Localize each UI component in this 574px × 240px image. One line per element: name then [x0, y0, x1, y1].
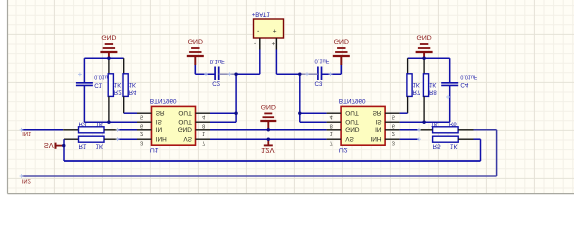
wire U2 to R5 — [400, 138, 419, 140]
svg-text:C3: C3 — [315, 80, 323, 87]
svg-text:R8: R8 — [429, 89, 437, 95]
no-connect crosses — [20, 72, 450, 178]
svg-text:1K: 1K — [96, 120, 104, 127]
svg-text:GND: GND — [261, 103, 276, 110]
svg-text:IN: IN — [156, 126, 163, 133]
svg-text:SV: SV — [44, 141, 54, 150]
svg-text:3: 3 — [140, 140, 143, 146]
svg-text:2: 2 — [392, 130, 395, 136]
svg-text:C2: C2 — [212, 80, 220, 87]
svg-text:IN2: IN2 — [22, 178, 31, 184]
svg-text:INH: INH — [156, 135, 167, 142]
svg-text:IN: IN — [375, 126, 382, 133]
resistor R7 — [407, 58, 421, 113]
svg-text:+: + — [273, 27, 277, 34]
svg-text:GND: GND — [417, 34, 432, 41]
svg-text:R4: R4 — [129, 89, 137, 95]
wire cross bus1 — [64, 139, 481, 161]
wire U1 IS row — [84, 121, 137, 123]
wire R1 to U1 — [118, 138, 137, 140]
wire IN2 bus2 — [22, 130, 497, 176]
svg-text:C4: C4 — [460, 81, 468, 88]
sheet border — [8, 0, 574, 194]
svg-text:1K: 1K — [429, 81, 436, 87]
svg-text:3: 3 — [392, 140, 395, 146]
svg-text:0.1uF: 0.1uF — [315, 57, 330, 63]
svg-text:IN1: IN1 — [22, 130, 31, 136]
svg-text:R6: R6 — [449, 120, 457, 127]
svg-text:BTN7960: BTN7960 — [150, 97, 177, 104]
wire battery minus — [210, 50, 260, 123]
svg-text:1: 1 — [202, 130, 205, 136]
svg-text:VS: VS — [345, 135, 354, 142]
svg-text:R7: R7 — [413, 89, 421, 95]
svg-text:+BAT1: +BAT1 — [252, 10, 271, 16]
power port 12V — [261, 139, 275, 155]
capacitor C2 — [195, 58, 236, 87]
svg-text:+: + — [272, 40, 276, 47]
power port SV — [44, 141, 64, 150]
svg-text:OUT: OUT — [178, 118, 192, 125]
svg-text:1K: 1K — [129, 81, 136, 87]
resistor R2 — [108, 58, 122, 122]
ground GND3 — [333, 38, 350, 75]
svg-text:4: 4 — [202, 114, 205, 120]
svg-text:R1: R1 — [79, 143, 87, 150]
ground GND1 — [100, 34, 117, 59]
wire U1-U2 GND row — [210, 129, 327, 131]
svg-text:0.01uF: 0.01uF — [460, 73, 477, 79]
svg-text:GND: GND — [188, 38, 203, 45]
svg-text:U1: U1 — [150, 146, 159, 153]
svg-text:INH: INH — [370, 135, 381, 142]
svg-text:IS: IS — [375, 118, 381, 125]
resistor R4 — [123, 58, 137, 113]
resistor R8 — [423, 58, 437, 122]
svg-text:1K: 1K — [413, 81, 420, 87]
svg-text:5: 5 — [392, 114, 395, 120]
resistor R1 — [64, 136, 118, 149]
resistor R6 — [419, 120, 474, 132]
svg-text:7: 7 — [202, 140, 205, 146]
wire U2 to R6 — [400, 129, 419, 131]
svg-text:SR: SR — [156, 109, 165, 116]
svg-text:R2: R2 — [114, 89, 122, 95]
svg-text:OUT: OUT — [345, 109, 359, 116]
svg-text:R3: R3 — [79, 120, 87, 127]
svg-text:OUT: OUT — [345, 118, 359, 125]
capacitor C4 — [441, 58, 478, 122]
battery BAT1 — [252, 10, 284, 49]
svg-text:8: 8 — [330, 123, 333, 129]
svg-text:6: 6 — [392, 123, 395, 129]
svg-text:6: 6 — [140, 123, 143, 129]
wire left GND rail — [84, 57, 123, 59]
junction dots — [62, 57, 426, 148]
svg-text:4: 4 — [330, 114, 333, 120]
wire U2 IS row — [400, 121, 450, 123]
svg-text:SR: SR — [373, 109, 382, 116]
svg-text:GND: GND — [178, 126, 193, 133]
ground GND2 — [187, 38, 204, 75]
capacitor C1 — [76, 58, 112, 122]
svg-text:8: 8 — [202, 123, 205, 129]
svg-text:BTN7960: BTN7960 — [339, 97, 366, 104]
wire IN1 — [22, 129, 64, 131]
wire U1-U2 VS row — [210, 138, 327, 140]
wire U1 SR row — [124, 112, 137, 114]
svg-text:1K: 1K — [450, 143, 458, 150]
svg-text:7: 7 — [330, 140, 333, 146]
svg-text:12V: 12V — [261, 146, 275, 155]
svg-text:1K: 1K — [96, 143, 104, 150]
svg-text:1K: 1K — [431, 120, 439, 127]
ground GND mid — [260, 103, 276, 130]
svg-text:VS: VS — [183, 135, 192, 142]
svg-text:1K: 1K — [114, 81, 121, 87]
svg-text:GND: GND — [334, 38, 349, 45]
resistor R3 — [63, 120, 117, 132]
op-amp U1 BTN7960 — [137, 97, 210, 153]
ground GND4 — [416, 34, 433, 59]
op-amp U2 BTN7960 — [327, 97, 400, 153]
wire right GND rail — [408, 57, 450, 59]
svg-text:0.1uF: 0.1uF — [210, 58, 225, 64]
svg-text:C1: C1 — [94, 81, 102, 88]
svg-text:1: 1 — [330, 130, 333, 136]
svg-text:5: 5 — [140, 114, 143, 120]
wire R3 to U1 — [118, 129, 137, 131]
svg-text:IS: IS — [156, 118, 162, 125]
wire U2 SR row — [400, 112, 408, 114]
svg-text:GND: GND — [345, 126, 360, 133]
svg-text:2: 2 — [140, 130, 143, 136]
svg-text:-: - — [254, 40, 256, 47]
wire battery plus — [276, 50, 326, 123]
svg-text:R5: R5 — [433, 143, 441, 150]
svg-text:GND: GND — [101, 34, 116, 41]
svg-text:OUT: OUT — [178, 109, 192, 116]
capacitor C3 — [301, 57, 342, 86]
resistor R5 — [433, 136, 474, 149]
svg-text:U2: U2 — [339, 146, 348, 153]
